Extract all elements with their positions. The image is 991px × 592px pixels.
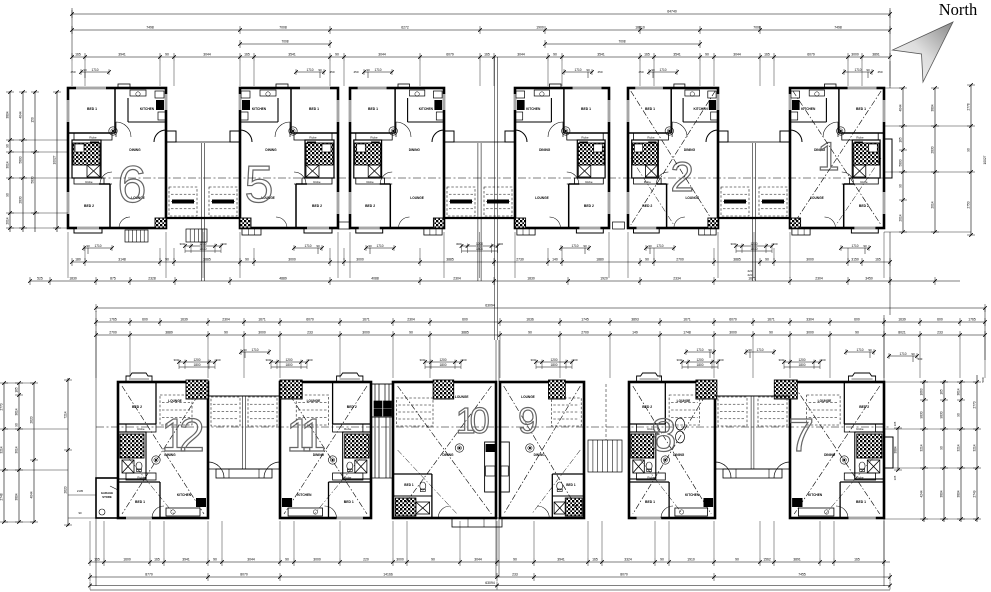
svg-text:2730: 2730 bbox=[516, 258, 524, 262]
svg-text:3148: 3148 bbox=[118, 258, 126, 262]
svg-text:450: 450 bbox=[70, 70, 75, 74]
svg-text:6079: 6079 bbox=[446, 53, 454, 57]
svg-text:90: 90 bbox=[165, 258, 169, 262]
svg-text:1200: 1200 bbox=[696, 358, 703, 362]
svg-text:10027: 10027 bbox=[53, 155, 57, 164]
svg-text:450: 450 bbox=[353, 70, 358, 74]
svg-text:KITCHEN: KITCHEN bbox=[526, 107, 541, 111]
svg-text:1710: 1710 bbox=[899, 352, 906, 356]
svg-text:LOUNGE: LOUNGE bbox=[455, 395, 469, 399]
svg-text:KITCHEN: KITCHEN bbox=[801, 107, 816, 111]
svg-text:1639: 1639 bbox=[898, 318, 906, 322]
svg-text:BED 1: BED 1 bbox=[344, 500, 354, 504]
svg-text:90: 90 bbox=[165, 53, 169, 57]
svg-text:DINING: DINING bbox=[409, 148, 421, 152]
svg-text:9830: 9830 bbox=[920, 411, 924, 418]
svg-text:4044: 4044 bbox=[899, 104, 903, 111]
svg-text:1600: 1600 bbox=[123, 558, 131, 562]
svg-text:149: 149 bbox=[632, 331, 638, 335]
svg-text:2304: 2304 bbox=[222, 318, 230, 322]
svg-text:2830: 2830 bbox=[931, 146, 935, 153]
svg-text:3044: 3044 bbox=[203, 53, 211, 57]
svg-text:3000: 3000 bbox=[396, 558, 404, 562]
svg-text:Robe: Robe bbox=[581, 136, 589, 140]
svg-text:2014: 2014 bbox=[931, 201, 935, 208]
svg-text:450: 450 bbox=[877, 70, 882, 74]
svg-text:KITCHEN: KITCHEN bbox=[252, 107, 267, 111]
svg-text:90: 90 bbox=[868, 348, 872, 352]
svg-text:1200: 1200 bbox=[550, 358, 557, 362]
svg-text:1671: 1671 bbox=[362, 318, 370, 322]
svg-text:DINING: DINING bbox=[824, 453, 836, 457]
svg-text:4244: 4244 bbox=[920, 490, 924, 497]
svg-text:90: 90 bbox=[86, 244, 90, 248]
svg-text:Robe: Robe bbox=[89, 136, 97, 140]
svg-text:1910: 1910 bbox=[687, 558, 695, 562]
svg-text:300: 300 bbox=[572, 358, 577, 362]
svg-text:450: 450 bbox=[329, 70, 334, 74]
svg-text:18810: 18810 bbox=[635, 26, 645, 30]
svg-text:8070: 8070 bbox=[620, 573, 628, 577]
svg-text:4088: 4088 bbox=[371, 277, 379, 281]
svg-text:180: 180 bbox=[75, 258, 81, 262]
svg-text:3304: 3304 bbox=[806, 318, 814, 322]
svg-text:90: 90 bbox=[528, 331, 532, 335]
svg-text:10027: 10027 bbox=[983, 155, 987, 164]
svg-text:165: 165 bbox=[592, 558, 598, 562]
svg-text:300: 300 bbox=[718, 358, 723, 362]
svg-text:BED 2: BED 2 bbox=[642, 204, 652, 208]
svg-text:3891: 3891 bbox=[872, 53, 880, 57]
svg-text:300: 300 bbox=[307, 358, 312, 362]
svg-text:165: 165 bbox=[644, 53, 650, 57]
svg-text:3044: 3044 bbox=[733, 53, 741, 57]
svg-text:2700: 2700 bbox=[676, 258, 684, 262]
svg-text:90: 90 bbox=[6, 193, 10, 197]
svg-text:BED 1: BED 1 bbox=[309, 107, 319, 111]
svg-text:1800: 1800 bbox=[193, 363, 200, 367]
svg-text:3614: 3614 bbox=[15, 408, 19, 415]
svg-text:3000: 3000 bbox=[258, 331, 266, 335]
svg-text:BED 1: BED 1 bbox=[645, 107, 655, 111]
svg-text:90: 90 bbox=[15, 423, 19, 427]
svg-text:BED 1: BED 1 bbox=[368, 107, 378, 111]
svg-text:2749: 2749 bbox=[973, 490, 977, 497]
svg-text:90: 90 bbox=[553, 53, 557, 57]
svg-text:3214: 3214 bbox=[920, 444, 924, 451]
svg-text:165: 165 bbox=[854, 558, 860, 562]
svg-text:LOUNGE: LOUNGE bbox=[307, 399, 321, 403]
svg-text:6070: 6070 bbox=[306, 318, 314, 322]
svg-text:1: 1 bbox=[817, 135, 839, 179]
svg-text:90: 90 bbox=[586, 68, 590, 72]
svg-text:1800: 1800 bbox=[798, 363, 805, 367]
svg-text:3000: 3000 bbox=[288, 258, 296, 262]
svg-text:Robe: Robe bbox=[344, 476, 352, 480]
svg-text:300: 300 bbox=[456, 242, 461, 246]
svg-text:165: 165 bbox=[75, 53, 81, 57]
svg-text:DINING: DINING bbox=[534, 453, 546, 457]
svg-text:8070: 8070 bbox=[240, 573, 248, 577]
svg-text:90: 90 bbox=[735, 558, 739, 562]
svg-text:1710: 1710 bbox=[656, 244, 663, 248]
svg-text:1710: 1710 bbox=[574, 68, 581, 72]
svg-text:Robe: Robe bbox=[585, 180, 593, 184]
svg-text:Robe: Robe bbox=[856, 476, 864, 480]
svg-text:90: 90 bbox=[863, 244, 867, 248]
svg-text:1710: 1710 bbox=[304, 244, 311, 248]
svg-text:3044: 3044 bbox=[517, 53, 525, 57]
svg-text:BED 1: BED 1 bbox=[404, 483, 414, 487]
svg-text:3893: 3893 bbox=[631, 318, 639, 322]
svg-text:KITCHEN: KITCHEN bbox=[808, 493, 823, 497]
svg-text:3214: 3214 bbox=[957, 444, 961, 451]
svg-text:3000: 3000 bbox=[313, 558, 321, 562]
svg-text:90: 90 bbox=[335, 53, 339, 57]
svg-text:90: 90 bbox=[513, 558, 517, 562]
svg-text:300: 300 bbox=[419, 358, 424, 362]
svg-text:300: 300 bbox=[530, 358, 535, 362]
svg-text:Robe: Robe bbox=[856, 136, 864, 140]
svg-text:3891: 3891 bbox=[793, 558, 801, 562]
svg-text:LOUNGE: LOUNGE bbox=[677, 399, 691, 403]
svg-text:90: 90 bbox=[83, 68, 87, 72]
svg-text:3000: 3000 bbox=[806, 331, 814, 335]
svg-text:1671: 1671 bbox=[258, 318, 266, 322]
svg-text:2750: 2750 bbox=[967, 201, 971, 208]
svg-text:7214: 7214 bbox=[64, 411, 68, 418]
svg-text:KITCHEN: KITCHEN bbox=[419, 107, 434, 111]
svg-text:BED 1: BED 1 bbox=[856, 107, 866, 111]
svg-text:5830: 5830 bbox=[31, 176, 35, 183]
svg-text:1562: 1562 bbox=[763, 558, 771, 562]
svg-text:2334: 2334 bbox=[673, 277, 681, 281]
svg-text:3150: 3150 bbox=[851, 258, 859, 262]
svg-text:Robe: Robe bbox=[85, 180, 93, 184]
svg-text:Robe: Robe bbox=[137, 427, 145, 431]
svg-text:DINING: DINING bbox=[684, 148, 696, 152]
svg-text:LOUNGE: LOUNGE bbox=[818, 399, 832, 403]
svg-text:3324: 3324 bbox=[624, 558, 632, 562]
svg-text:3000: 3000 bbox=[729, 331, 737, 335]
svg-text:BED 1: BED 1 bbox=[856, 500, 866, 504]
svg-text:1830: 1830 bbox=[69, 277, 77, 281]
svg-text:2014: 2014 bbox=[6, 217, 10, 224]
svg-text:90: 90 bbox=[648, 244, 652, 248]
svg-text:7498: 7498 bbox=[146, 26, 154, 30]
svg-text:2700: 2700 bbox=[109, 331, 117, 335]
svg-text:165: 165 bbox=[875, 258, 881, 262]
svg-text:600: 600 bbox=[854, 318, 860, 322]
svg-text:1800: 1800 bbox=[550, 363, 557, 367]
svg-text:1748: 1748 bbox=[683, 331, 691, 335]
svg-text:Robe: Robe bbox=[344, 427, 352, 431]
svg-text:600: 600 bbox=[462, 318, 468, 322]
svg-text:140: 140 bbox=[552, 258, 558, 262]
svg-text:3014: 3014 bbox=[15, 446, 19, 453]
svg-text:300: 300 bbox=[778, 358, 783, 362]
svg-text:5800: 5800 bbox=[19, 156, 23, 163]
svg-text:90: 90 bbox=[967, 148, 971, 152]
svg-text:600: 600 bbox=[142, 318, 148, 322]
svg-text:300: 300 bbox=[498, 242, 503, 246]
svg-text:1710: 1710 bbox=[756, 348, 763, 352]
svg-text:LOUNGE: LOUNGE bbox=[535, 196, 549, 200]
svg-text:STORE: STORE bbox=[102, 495, 112, 499]
svg-text:1710: 1710 bbox=[374, 68, 381, 72]
svg-text:90: 90 bbox=[748, 348, 752, 352]
svg-text:6070: 6070 bbox=[729, 318, 737, 322]
svg-text:1710: 1710 bbox=[659, 68, 666, 72]
svg-text:DINING: DINING bbox=[265, 148, 277, 152]
svg-text:300: 300 bbox=[676, 358, 681, 362]
svg-text:450: 450 bbox=[597, 70, 602, 74]
svg-text:2830: 2830 bbox=[19, 196, 23, 203]
svg-text:1710: 1710 bbox=[91, 68, 98, 72]
svg-text:90: 90 bbox=[651, 68, 655, 72]
svg-text:63094: 63094 bbox=[485, 304, 495, 308]
svg-text:2770: 2770 bbox=[973, 401, 977, 408]
svg-text:8770: 8770 bbox=[145, 573, 153, 577]
svg-text:165: 165 bbox=[94, 558, 100, 562]
svg-text:220: 220 bbox=[363, 558, 369, 562]
svg-text:600: 600 bbox=[937, 318, 943, 322]
svg-text:90: 90 bbox=[708, 348, 712, 352]
svg-text:90: 90 bbox=[940, 446, 944, 450]
svg-text:2105: 2105 bbox=[77, 489, 84, 493]
svg-text:3885: 3885 bbox=[461, 331, 469, 335]
svg-text:BED 1: BED 1 bbox=[566, 483, 576, 487]
svg-text:1200: 1200 bbox=[798, 358, 805, 362]
svg-text:2778: 2778 bbox=[967, 103, 971, 110]
svg-text:14166: 14166 bbox=[383, 573, 393, 577]
svg-text:1200: 1200 bbox=[193, 358, 200, 362]
svg-text:3000: 3000 bbox=[851, 53, 859, 57]
svg-text:90: 90 bbox=[705, 53, 709, 57]
svg-text:1671: 1671 bbox=[767, 318, 775, 322]
svg-text:2770: 2770 bbox=[0, 403, 4, 410]
svg-text:3804: 3804 bbox=[940, 490, 944, 497]
svg-text:5800: 5800 bbox=[899, 159, 903, 166]
svg-text:90: 90 bbox=[645, 258, 649, 262]
svg-text:1800: 1800 bbox=[696, 363, 703, 367]
svg-text:4044: 4044 bbox=[19, 111, 23, 118]
svg-text:165: 165 bbox=[764, 53, 770, 57]
svg-text:2304: 2304 bbox=[815, 277, 823, 281]
svg-text:90: 90 bbox=[224, 331, 228, 335]
svg-text:300: 300 bbox=[179, 242, 184, 246]
svg-text:KITCHEN: KITCHEN bbox=[140, 107, 155, 111]
svg-text:300: 300 bbox=[730, 242, 735, 246]
svg-text:1200: 1200 bbox=[439, 358, 446, 362]
svg-text:6079: 6079 bbox=[807, 53, 815, 57]
svg-text:3214: 3214 bbox=[0, 446, 4, 453]
svg-text:BED 1: BED 1 bbox=[87, 107, 97, 111]
svg-text:1639: 1639 bbox=[180, 318, 188, 322]
svg-text:3885: 3885 bbox=[203, 258, 211, 262]
svg-text:1900: 1900 bbox=[536, 26, 544, 30]
svg-text:300: 300 bbox=[173, 358, 178, 362]
svg-text:90: 90 bbox=[245, 258, 249, 262]
svg-text:90: 90 bbox=[583, 244, 587, 248]
svg-text:Robe: Robe bbox=[370, 136, 378, 140]
svg-text:BED 2: BED 2 bbox=[584, 204, 594, 208]
svg-text:Robe: Robe bbox=[313, 180, 321, 184]
svg-text:90: 90 bbox=[6, 144, 10, 148]
svg-text:90: 90 bbox=[366, 68, 370, 72]
svg-text:165: 165 bbox=[15, 387, 19, 393]
svg-text:2620: 2620 bbox=[64, 486, 68, 493]
svg-text:DINING: DINING bbox=[539, 148, 551, 152]
svg-text:2328: 2328 bbox=[148, 277, 156, 281]
svg-text:90: 90 bbox=[660, 558, 664, 562]
svg-text:3541: 3541 bbox=[288, 53, 296, 57]
svg-text:1671: 1671 bbox=[748, 277, 756, 281]
svg-text:90: 90 bbox=[431, 558, 435, 562]
svg-text:1710: 1710 bbox=[856, 348, 863, 352]
svg-text:90: 90 bbox=[855, 331, 859, 335]
svg-text:7498: 7498 bbox=[834, 26, 842, 30]
svg-text:90: 90 bbox=[318, 68, 322, 72]
svg-text:LOUNGE: LOUNGE bbox=[521, 395, 535, 399]
svg-text:LOUNGE: LOUNGE bbox=[410, 196, 424, 200]
svg-text:3804: 3804 bbox=[957, 490, 961, 497]
svg-text:2620: 2620 bbox=[30, 416, 34, 423]
svg-text:6272: 6272 bbox=[401, 26, 409, 30]
svg-text:1800: 1800 bbox=[285, 363, 292, 367]
svg-text:Robe: Robe bbox=[137, 476, 145, 480]
svg-text:875: 875 bbox=[110, 277, 116, 281]
svg-text:90: 90 bbox=[899, 184, 903, 188]
svg-text:7008: 7008 bbox=[279, 26, 287, 30]
svg-text:1710: 1710 bbox=[306, 68, 313, 72]
svg-text:BED 2: BED 2 bbox=[859, 405, 869, 409]
svg-text:1710: 1710 bbox=[571, 244, 578, 248]
svg-text:300: 300 bbox=[221, 242, 226, 246]
svg-text:KITCHEN: KITCHEN bbox=[177, 493, 192, 497]
svg-text:3000: 3000 bbox=[362, 331, 370, 335]
svg-text:165: 165 bbox=[899, 137, 903, 143]
svg-text:1880: 1880 bbox=[596, 258, 604, 262]
svg-text:7008: 7008 bbox=[618, 40, 625, 44]
svg-text:5: 5 bbox=[245, 156, 274, 214]
svg-text:1200: 1200 bbox=[285, 358, 292, 362]
svg-text:90: 90 bbox=[243, 348, 247, 352]
svg-text:Robe: Robe bbox=[367, 180, 375, 184]
svg-text:3614: 3614 bbox=[957, 388, 961, 395]
svg-text:1710: 1710 bbox=[696, 348, 703, 352]
svg-text:2014: 2014 bbox=[899, 214, 903, 221]
svg-text:3941: 3941 bbox=[118, 53, 126, 57]
svg-text:90: 90 bbox=[957, 413, 961, 417]
svg-text:1800: 1800 bbox=[439, 363, 446, 367]
svg-text:3044: 3044 bbox=[247, 558, 255, 562]
svg-text:BED 1: BED 1 bbox=[135, 500, 145, 504]
svg-text:3804: 3804 bbox=[15, 493, 19, 500]
svg-text:90: 90 bbox=[78, 511, 82, 515]
svg-text:3804: 3804 bbox=[6, 111, 10, 118]
svg-text:3014: 3014 bbox=[6, 161, 10, 168]
svg-text:8021: 8021 bbox=[898, 331, 906, 335]
svg-text:300: 300 bbox=[215, 358, 220, 362]
svg-text:165: 165 bbox=[893, 421, 897, 426]
svg-text:3214: 3214 bbox=[973, 444, 977, 451]
svg-text:Robe: Robe bbox=[856, 427, 864, 431]
svg-text:3885: 3885 bbox=[446, 258, 454, 262]
svg-text:Robe: Robe bbox=[309, 136, 317, 140]
svg-text:3804: 3804 bbox=[931, 104, 935, 111]
svg-text:3885: 3885 bbox=[733, 258, 741, 262]
svg-text:1710: 1710 bbox=[854, 68, 861, 72]
svg-text:DINING: DINING bbox=[129, 148, 141, 152]
svg-text:KITCHEN: KITCHEN bbox=[297, 493, 312, 497]
svg-text:BED 2: BED 2 bbox=[132, 405, 142, 409]
svg-text:Robe: Robe bbox=[860, 180, 868, 184]
svg-text:BED 2: BED 2 bbox=[84, 204, 94, 208]
svg-text:1830: 1830 bbox=[527, 277, 535, 281]
svg-text:64740: 64740 bbox=[667, 10, 677, 14]
svg-text:KITCHEN: KITCHEN bbox=[685, 493, 700, 497]
svg-text:3541: 3541 bbox=[673, 53, 681, 57]
svg-text:1710: 1710 bbox=[94, 244, 101, 248]
svg-text:3450: 3450 bbox=[865, 277, 873, 281]
svg-text:300: 300 bbox=[265, 358, 270, 362]
svg-text:165: 165 bbox=[940, 389, 944, 395]
svg-text:KITCHEN: KITCHEN bbox=[694, 107, 709, 111]
svg-text:3000: 3000 bbox=[356, 258, 364, 262]
svg-text:2748: 2748 bbox=[0, 493, 4, 500]
svg-text:2700: 2700 bbox=[581, 331, 589, 335]
svg-text:BED 2: BED 2 bbox=[347, 405, 357, 409]
svg-text:300: 300 bbox=[772, 242, 777, 246]
svg-text:3889: 3889 bbox=[165, 331, 173, 335]
svg-text:600: 600 bbox=[918, 357, 923, 361]
svg-text:525: 525 bbox=[37, 277, 43, 281]
svg-text:1710: 1710 bbox=[851, 244, 858, 248]
svg-text:1663: 1663 bbox=[920, 388, 924, 395]
svg-text:90: 90 bbox=[409, 331, 413, 335]
svg-text:63094: 63094 bbox=[485, 581, 495, 585]
svg-text:BED 2: BED 2 bbox=[365, 204, 375, 208]
svg-text:165: 165 bbox=[244, 53, 250, 57]
svg-text:90: 90 bbox=[368, 244, 372, 248]
svg-text:BED 1: BED 1 bbox=[581, 107, 591, 111]
svg-text:Robe: Robe bbox=[644, 180, 652, 184]
svg-text:1710: 1710 bbox=[376, 244, 383, 248]
svg-text:BED 2: BED 2 bbox=[312, 204, 322, 208]
svg-text:90: 90 bbox=[769, 331, 773, 335]
svg-text:90: 90 bbox=[213, 558, 217, 562]
svg-text:3000: 3000 bbox=[806, 258, 814, 262]
svg-text:6: 6 bbox=[118, 156, 147, 214]
svg-text:3541: 3541 bbox=[597, 53, 605, 57]
svg-text:7008: 7008 bbox=[753, 26, 761, 30]
svg-text:90: 90 bbox=[285, 558, 289, 562]
svg-text:2304: 2304 bbox=[453, 277, 461, 281]
svg-text:150: 150 bbox=[31, 117, 35, 123]
svg-text:450: 450 bbox=[638, 70, 643, 74]
svg-text:90: 90 bbox=[911, 352, 915, 356]
svg-text:Robe: Robe bbox=[647, 136, 655, 140]
svg-text:4889: 4889 bbox=[279, 277, 287, 281]
svg-text:1765: 1765 bbox=[968, 318, 976, 322]
svg-text:223: 223 bbox=[747, 273, 752, 277]
svg-text:1745: 1745 bbox=[581, 318, 589, 322]
svg-text:3044: 3044 bbox=[474, 558, 482, 562]
svg-text:North: North bbox=[939, 0, 978, 19]
svg-text:7455: 7455 bbox=[798, 573, 806, 577]
svg-text:3941: 3941 bbox=[182, 558, 190, 562]
